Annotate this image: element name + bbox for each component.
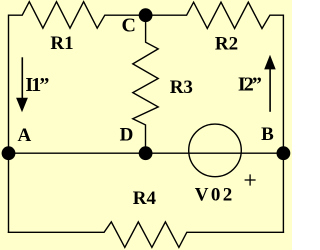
svg-text:I2”: I2” [238, 74, 262, 96]
svg-text:R1: R1 [50, 33, 73, 54]
svg-text:R3: R3 [170, 77, 193, 98]
svg-text:C: C [122, 15, 136, 37]
svg-text:V02: V02 [195, 185, 233, 206]
svg-text:D: D [120, 125, 134, 146]
svg-text:R2: R2 [215, 34, 238, 55]
svg-text:B: B [261, 124, 274, 145]
svg-text:A: A [18, 125, 32, 146]
svg-text:I1”: I1” [25, 74, 49, 96]
svg-text:R4: R4 [133, 188, 157, 209]
